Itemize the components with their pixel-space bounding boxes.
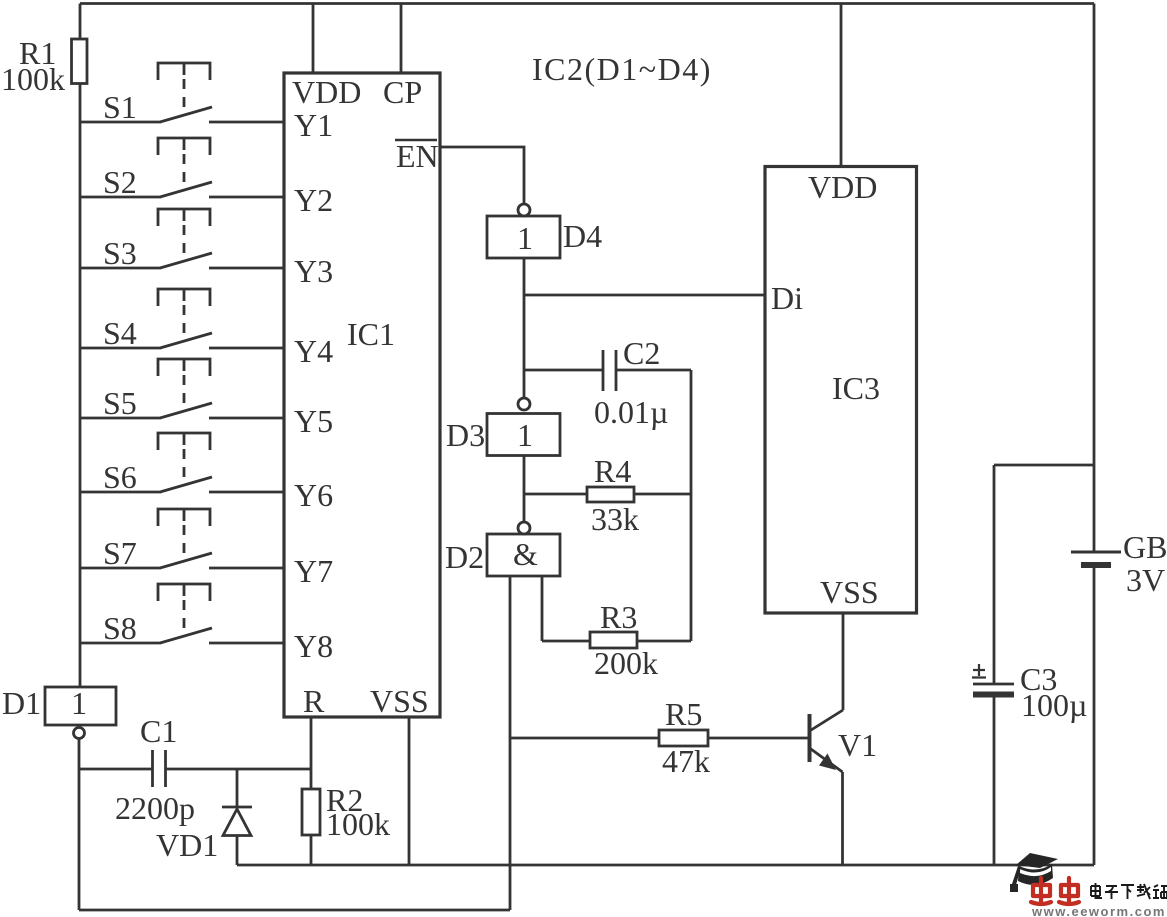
wire right rail top segment [1093,4,1096,553]
wire S5 right segment to Y5 [209,417,284,420]
svg-text:0.01µ: 0.01µ [594,394,668,430]
wire D4 output down to D3 [523,258,526,399]
wire S7 left segment [80,567,161,570]
svg-text:VD1: VD1 [156,827,218,863]
wire R3 to feedback rail [637,640,691,643]
switch S5 actuator bracket [158,359,210,376]
svg-text:D1: D1 [2,685,41,721]
capacitor C3 positive plate [973,683,1014,686]
svg-text:Y6: Y6 [294,477,333,513]
wire R2 bottom [310,835,313,865]
svg-text:VDD: VDD [808,169,877,205]
svg-text:D2: D2 [445,539,484,575]
switch S4 actuator shaft [183,289,186,301]
wire left rail top to R1 [79,4,82,40]
wire S3 left segment [80,267,161,270]
svg-text:R: R [303,683,325,719]
svg-text:Di: Di [771,280,803,316]
wire S4 left segment [80,347,161,350]
wire right rail bottom segment [1093,568,1096,865]
wire top supply rail [80,2,1094,5]
svg-text:Y2: Y2 [294,182,333,218]
svg-text:S6: S6 [103,459,137,495]
wire S7 right segment to Y7 [209,567,284,570]
svg-text:3V: 3V [1126,562,1165,598]
transistor V1 base bar [808,714,812,762]
svg-text:Y5: Y5 [294,403,333,439]
switch S7 actuator bracket [158,509,210,526]
wire C3 vertical bottom [993,697,996,865]
svg-text:V1: V1 [838,727,877,763]
switch S6 arm [160,477,212,492]
wire S4 right segment to Y4 [209,347,284,350]
IC3 box [765,167,917,614]
svg-text:S5: S5 [103,385,137,421]
svg-text:S3: S3 [103,235,137,271]
svg-text:1: 1 [517,417,533,453]
resistor R4 [587,487,634,502]
svg-text:&: & [513,536,538,572]
svg-text:100k: 100k [326,806,390,842]
wire node Di horizontal to IC3 [524,294,765,297]
wire feedback vertical rail [690,370,693,641]
switch S5 arm [160,403,212,418]
svg-text:47k: 47k [662,743,710,779]
wire C1 left branch [79,768,153,771]
wire S1 left segment [80,121,161,124]
svg-text:Y4: Y4 [294,333,333,369]
svg-text:33k: 33k [591,501,639,537]
wire R4 branch [524,493,587,496]
switch S8 arm [160,628,212,643]
capacitor C3 polarity plus [972,664,986,678]
switch S7 arm [160,553,212,568]
gate D3 box [487,414,560,456]
svg-text:IC3: IC3 [832,370,880,406]
switch S3 actuator shaft [183,209,186,221]
wire C3 branch top [994,464,1094,467]
svg-text:VDD: VDD [292,74,361,110]
wire S2 right segment to Y2 [209,196,284,199]
watermark text chongchong (red) [1031,878,1079,904]
switch S4 arm [160,333,212,348]
wire IC1 VSS pin down [408,717,411,865]
switch S4 actuator bracket [158,289,210,306]
svg-text:GB: GB [1123,529,1167,565]
transistor V1 emitter [810,748,843,772]
svg-text:100k: 100k [1,61,65,97]
wire bottom ground rail [237,864,1094,867]
gate D2 box [487,534,560,576]
svg-text:Y8: Y8 [294,628,333,664]
wire R5 to V1 base [708,737,809,740]
wire R5 branch [510,737,659,740]
wire S3 right segment to Y3 [209,267,284,270]
svg-text:VSS: VSS [370,683,429,719]
wire VD1 top [236,769,239,807]
svg-text:D3: D3 [446,417,485,453]
svg-text:EN: EN [396,138,439,174]
svg-text:2200p: 2200p [115,790,195,826]
wire D1 output down [78,739,81,770]
capacitor C1 [151,750,154,787]
svg-text:S8: S8 [103,610,137,646]
svg-text:CP: CP [383,74,422,110]
wire S2 left segment [80,196,161,199]
watermark text dianzixiazaizhan [1091,883,1167,899]
switch S6 actuator bracket [158,433,210,450]
IC1 pin EN overline [395,139,437,141]
wire R4 to feedback rail [634,493,691,496]
switch S8 actuator shaft [183,584,186,596]
wire bottom-left return [79,909,510,912]
svg-text:R5: R5 [665,696,702,732]
svg-text:R3: R3 [600,599,637,635]
wire S1 right segment to Y1 [209,121,284,124]
resistor R5 [659,730,708,746]
capacitor C3 negative plate [973,692,1014,698]
wire IC3 VSS to V1 collector [842,613,845,710]
wire D2 left output down [509,576,512,910]
gate D1 box [45,687,116,725]
switch S6 actuator shaft [183,433,186,445]
transistor V1 collector [810,710,844,731]
svg-text:S1: S1 [103,89,137,125]
gate D4 input bubble [518,204,530,216]
svg-text:C1: C1 [140,713,177,749]
svg-text:200k: 200k [594,645,658,681]
wire C2 top branch [524,369,603,372]
gate D1 output bubble [74,728,85,739]
battery GB negative plate [1081,562,1111,568]
wire C1 right to R pin [166,768,312,771]
svg-text:S7: S7 [103,535,137,571]
wire S5 left segment [80,417,161,420]
wire IC1 VDD to top rail [312,4,315,74]
wire IC1 R pin down [310,717,313,789]
switch S5 actuator shaft [183,359,186,371]
switch S8 actuator bracket [158,584,210,601]
wire EN to gate D4 [440,147,524,204]
switch S7 actuator shaft [183,509,186,521]
switch S2 arm [160,182,212,197]
wire D2 output to R3 [542,640,590,643]
switch S3 arm [160,253,212,268]
switch S2 actuator bracket [158,138,210,155]
wire D3 output down to D2 [523,456,526,523]
wire S8 left segment [80,642,161,645]
diode VD1 triangle [223,809,251,836]
wire S6 left segment [80,491,161,494]
svg-text:C2: C2 [623,335,660,371]
gate D2 input bubble [518,522,530,534]
switch S3 actuator bracket [158,209,210,226]
switch S1 actuator bracket [158,63,210,80]
gate D4 box [487,216,560,258]
wire VD1 bottom [236,835,239,865]
wire left common rail [79,84,82,688]
svg-text:D4: D4 [563,218,602,254]
capacitor C2 [602,350,605,391]
svg-text:VSS: VSS [820,574,879,610]
switch S1 actuator shaft [183,63,186,75]
switch S2 actuator shaft [183,138,186,150]
resistor R2 [302,789,320,835]
transistor V1 emitter arrow [819,754,836,771]
switch S1 arm [160,107,212,122]
svg-text:1: 1 [71,685,87,721]
watermark graduation cap [1010,853,1058,892]
resistor R1 [72,39,88,84]
svg-text:1: 1 [517,220,533,256]
wire C3 vertical top [993,465,996,684]
wire S6 right segment to Y6 [209,491,284,494]
svg-text:100µ: 100µ [1021,687,1087,723]
wire left rail bottom [78,769,81,910]
svg-text:Y7: Y7 [294,553,333,589]
IC1 box [284,73,440,717]
gate D3 input bubble [518,398,530,410]
svg-text:R4: R4 [594,453,631,489]
svg-text:Y3: Y3 [294,253,333,289]
wire D2 right output down to R3 [541,576,544,641]
diode VD1 cathode bar [222,806,252,809]
svg-text:Y1: Y1 [294,107,333,143]
svg-text:IC2(D1~D4): IC2(D1~D4) [532,51,712,87]
resistor R3 [590,632,637,648]
svg-text:www.eeworm.com: www.eeworm.com [1031,904,1166,917]
wire IC3 VDD to top rail [840,4,843,168]
battery GB positive plate [1071,551,1121,554]
wire V1 emitter down [841,772,844,865]
wire IC1 CP to top rail [400,4,403,74]
svg-text:S4: S4 [103,315,137,351]
wire S8 right segment to Y8 [209,642,284,645]
svg-text:IC1: IC1 [347,316,395,352]
wire C2 right to feedback rail [616,369,691,372]
svg-text:S2: S2 [103,164,137,200]
